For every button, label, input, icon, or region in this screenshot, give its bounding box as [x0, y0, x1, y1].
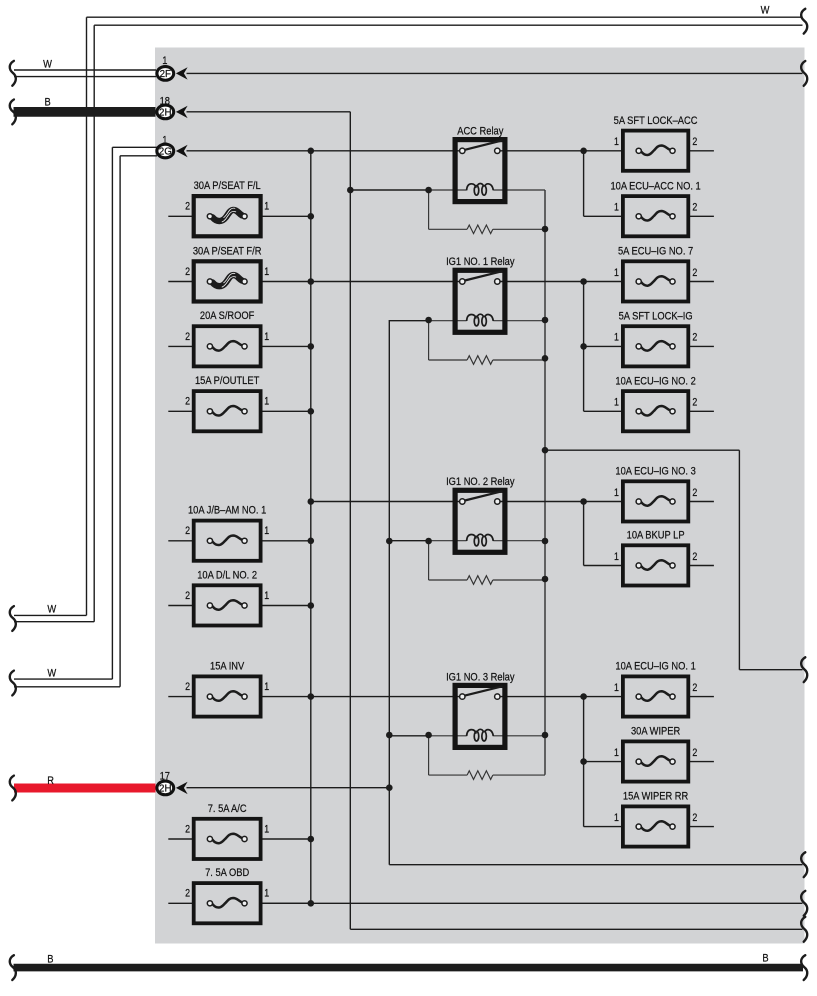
svg-text:1: 1 — [264, 681, 269, 693]
wire 7.5A OBD row continues to right edge — [261, 902, 803, 904]
value label 10A D/L NO. 2 — [197, 570, 257, 582]
junction at (583.6,501.5) on right fuse feed bus — [580, 498, 587, 505]
svg-text:30A WIPER: 30A WIPER — [631, 726, 681, 738]
bus: right fuse feed vertical (IG1 NO.2 group) — [583, 502, 585, 566]
pin 1 label of 10A D/L NO. 2 — [264, 590, 269, 602]
value label 30A P/SEAT F/R — [193, 246, 262, 258]
wire R (red) from left edge to connector 2H pin 17 — [14, 784, 156, 793]
value label 10A ECU–IG NO. 2 — [615, 376, 696, 388]
junction at (310.8,501.5) on left output bus — [308, 498, 315, 505]
wire coil feed to IG1 NO. 3 Relay — [389, 735, 428, 737]
svg-text:2: 2 — [692, 136, 697, 148]
value label 30A P/SEAT F/L — [194, 180, 261, 192]
wire right fuse output at y=411.3 — [688, 410, 714, 412]
wire left fuse output at y=346.4 — [261, 345, 311, 347]
svg-text:B: B — [44, 97, 50, 109]
svg-text:15A INV: 15A INV — [210, 661, 244, 673]
svg-text:ACC Relay: ACC Relay — [457, 126, 504, 138]
junction at (389.3,541) on coil return bus — [386, 538, 393, 545]
wire right fuse output at y=501.5 — [688, 501, 714, 503]
pin 1 label of 10A BKUP LP — [614, 551, 619, 563]
pin 1 label of 10A J/B–AM NO. 1 — [264, 525, 269, 537]
junction at (428.6,190) on resistor branch — [425, 187, 432, 194]
svg-text:1: 1 — [614, 812, 619, 824]
value label 5A SFT LOCK–IG — [619, 311, 693, 323]
svg-text:5A SFT LOCK–IG: 5A SFT LOCK–IG — [619, 311, 693, 323]
svg-text:2F: 2F — [160, 69, 171, 80]
junction at (428.6,735) on resistor branch — [425, 732, 432, 739]
resistor of ACC Relay — [467, 225, 493, 234]
svg-text:2: 2 — [692, 812, 697, 824]
relay IG1 NO. 3 Relay — [455, 685, 505, 747]
wire break (left edge) W lower exit 1 — [10, 606, 16, 631]
wire W pair corner into 2G — [112, 147, 157, 156]
svg-text:1: 1 — [614, 136, 619, 148]
wire W vertical pair to connector 2G — [112, 147, 120, 687]
junction at (583.6,346.4) on right fuse feed bus — [580, 343, 587, 350]
relay ACC Relay — [455, 140, 505, 202]
svg-text:IG1 NO. 1 Relay: IG1 NO. 1 Relay — [446, 256, 515, 268]
wire coil loop of IG1 NO. 2 Relay (coil row / resistor branch) — [429, 541, 545, 580]
svg-text:2: 2 — [185, 681, 190, 693]
pin 1 label of 10A ECU–IG NO. 3 — [614, 487, 619, 499]
connector 2H pin 17 — [157, 781, 188, 795]
svg-text:2: 2 — [185, 824, 190, 836]
junction at (583.6,281.5) on right fuse feed bus — [580, 278, 587, 285]
wire W vertical outer (left side) — [86, 17, 88, 615]
svg-text:15A P/OUTLET: 15A P/OUTLET — [195, 375, 260, 387]
label of relay IG1 NO. 2 Relay — [446, 476, 515, 488]
junction at (545.0,358.3) on coil right bus — [542, 355, 549, 362]
pin 2 label of 15A INV — [185, 681, 190, 693]
fuse 10A ECU–ACC NO. 1 — [623, 196, 688, 236]
wire right fuse output at y=565.5 — [688, 565, 714, 567]
bus: coil/resistor right vertical — [544, 190, 546, 775]
svg-text:7. 5A A/C: 7. 5A A/C — [208, 803, 247, 815]
svg-text:B: B — [762, 953, 768, 965]
wire color label B at (50.4,962.3) — [47, 954, 53, 966]
svg-text:30A P/SEAT F/L: 30A P/SEAT F/L — [194, 180, 261, 192]
wire left fuse output at y=696.6 — [261, 696, 463, 698]
pin 2 label of 30A P/SEAT F/L — [185, 201, 190, 213]
pin 2 label of 30A WIPER — [692, 747, 697, 759]
wire color label W at (51.8,612.5) — [47, 604, 56, 616]
wire W lower-left exit pair (second W) — [14, 679, 120, 687]
wire left fuse stub at y=605.5 — [168, 605, 193, 607]
svg-text:1: 1 — [614, 202, 619, 214]
pin 1 label of 10A ECU–IG NO. 2 — [614, 397, 619, 409]
wire coil loop of IG1 NO. 3 Relay (coil row / resistor branch) — [429, 736, 545, 775]
wire color label B at (47.6,105.6) — [44, 97, 50, 109]
fuse 15A WIPER RR — [623, 806, 688, 846]
value label 7. 5A OBD — [205, 867, 250, 879]
wire B (black) from left edge to connector 2H pin 18 — [14, 107, 156, 117]
resistor of IG1 NO. 1 Relay — [467, 356, 493, 365]
svg-text:IG1 NO. 2 Relay: IG1 NO. 2 Relay — [446, 476, 515, 488]
svg-text:5A SFT LOCK–ACC: 5A SFT LOCK–ACC — [614, 115, 698, 127]
svg-text:1: 1 — [614, 747, 619, 759]
fuse 10A D/L NO. 2 — [194, 585, 261, 625]
svg-text:1: 1 — [614, 487, 619, 499]
wire break (right edge) B ground bus — [801, 955, 807, 980]
value label 30A WIPER — [631, 726, 681, 738]
wire from 2H pin 17 to coil return bus — [187, 787, 390, 789]
wire break (left edge) R into 2H-17 — [10, 776, 16, 801]
junction at (310.8,540.8) on left output bus — [308, 538, 315, 545]
fuse 5A ECU–IG NO. 7 — [623, 261, 688, 301]
wire right fuse output at y=826.6 — [688, 826, 714, 828]
wire W vertical inner (left side) — [93, 25, 95, 622]
pin 2 label of 10A BKUP LP — [692, 551, 697, 563]
wire break (right edge) ground bus exit — [801, 917, 807, 942]
wire right fuse feed at y=411.3 — [584, 410, 623, 412]
label of relay ACC Relay — [457, 126, 504, 138]
pin number 1 of connector 2G — [162, 135, 167, 147]
value label 20A S/ROOF — [200, 310, 254, 322]
svg-text:2: 2 — [185, 590, 190, 602]
junction at (583.6,696.6) on right fuse feed bus — [580, 693, 587, 700]
resistor of IG1 NO. 3 Relay — [467, 771, 493, 780]
svg-text:20A S/ROOF: 20A S/ROOF — [200, 310, 254, 322]
wire coil feed to ACC Relay — [350, 189, 428, 191]
svg-text:10A ECU–IG NO. 2: 10A ECU–IG NO. 2 — [615, 376, 696, 388]
value label 7. 5A A/C — [208, 803, 247, 815]
fuse 15A P/OUTLET — [194, 391, 261, 431]
pin number 17 of connector 2H — [160, 771, 171, 783]
wire IG1 NO.2 relay contact output — [497, 501, 623, 503]
wire break (right edge) coil return exit — [801, 852, 807, 877]
bus: left fuse output vertical (feeds relays) — [310, 151, 312, 904]
svg-text:1: 1 — [614, 397, 619, 409]
svg-text:2: 2 — [185, 201, 190, 213]
junction at (545.0,541) on coil right bus — [542, 538, 549, 545]
svg-text:W: W — [47, 668, 56, 680]
junction at (310.8,839) on left output bus — [308, 836, 315, 843]
pin 2 label of 7. 5A A/C — [185, 824, 190, 836]
wire W from left edge to connector 2F (double line) — [14, 70, 156, 77]
wire coil feed to IG1 NO. 1 Relay — [389, 320, 428, 322]
pin 2 label of 15A P/OUTLET — [185, 396, 190, 408]
svg-text:2G: 2G — [159, 146, 172, 157]
pin 2 label of 10A J/B–AM NO. 1 — [185, 525, 190, 537]
wire IG1 NO.2 relay contact feed — [311, 501, 463, 503]
svg-text:10A D/L NO. 2: 10A D/L NO. 2 — [197, 570, 257, 582]
junction at (310.8,216.3) on left output bus — [308, 213, 315, 220]
pin 2 label of 20A S/ROOF — [185, 331, 190, 343]
wire coil loop of IG1 NO. 1 Relay (coil row / resistor branch) — [429, 321, 545, 360]
bus: right fuse feed vertical (ACC group) — [583, 151, 585, 217]
pin number 1 of connector 2F — [162, 55, 167, 67]
bus: right fuse feed vertical (IG1 NO.1 group) — [583, 282, 585, 412]
pin 2 label of 7. 5A OBD — [185, 888, 190, 900]
wire break (left edge) B ground bus — [10, 955, 16, 980]
wire W top inner run (to right edge) — [94, 24, 802, 26]
wire break (right edge) 2F line — [801, 61, 807, 86]
svg-text:1: 1 — [162, 55, 167, 67]
relay IG1 NO. 2 Relay — [455, 490, 505, 552]
junction block panel (shaded background) — [155, 48, 805, 944]
svg-text:1: 1 — [264, 266, 269, 278]
svg-text:1: 1 — [614, 551, 619, 563]
junction at (583.6,150.8) on right fuse feed bus — [580, 148, 587, 155]
junction at (310.8,696.6) on left output bus — [308, 693, 315, 700]
bus: 2H-18 ground vertical — [349, 112, 351, 930]
svg-text:1: 1 — [264, 590, 269, 602]
wire right fuse output at y=696.6 — [688, 696, 714, 698]
resistor of IG1 NO. 2 Relay — [467, 576, 493, 585]
svg-text:W: W — [43, 59, 52, 71]
svg-text:B: B — [47, 954, 53, 966]
pin 2 label of 5A ECU–IG NO. 7 — [692, 267, 697, 279]
svg-text:10A ECU–ACC NO. 1: 10A ECU–ACC NO. 1 — [610, 181, 700, 193]
fuse 30A WIPER — [623, 741, 688, 781]
wire left fuse output at y=605.5 — [261, 605, 311, 607]
svg-text:1: 1 — [264, 525, 269, 537]
wire right fuse output at y=761.6 — [688, 761, 714, 763]
svg-text:2H: 2H — [159, 783, 171, 794]
pin 2 label of 15A WIPER RR — [692, 812, 697, 824]
svg-text:1: 1 — [264, 331, 269, 343]
wire left fuse output at y=903.3 — [261, 902, 311, 904]
bus: right fuse feed vertical (IG1 NO.3 group) — [583, 697, 585, 827]
pin 2 label of 5A SFT LOCK–IG — [692, 332, 697, 344]
wire break (left edge) W into 2F — [10, 61, 16, 86]
junction at (310.8,903.3) on left output bus — [308, 900, 315, 907]
wire left fuse stub at y=839 — [168, 838, 193, 840]
fuse 7. 5A OBD — [194, 883, 261, 923]
fuse 30A P/SEAT F/R — [194, 261, 261, 301]
svg-text:R: R — [47, 775, 54, 787]
wire left fuse stub at y=216.3 — [168, 215, 193, 217]
value label 10A BKUP LP — [627, 530, 685, 542]
svg-text:2: 2 — [185, 396, 190, 408]
svg-text:7. 5A OBD: 7. 5A OBD — [205, 867, 250, 879]
wire ground bus exit to right edge — [350, 928, 802, 930]
label of relay IG1 NO. 3 Relay — [446, 672, 515, 684]
wire right fuse feed at y=565.5 — [584, 565, 623, 567]
svg-text:1: 1 — [264, 201, 269, 213]
wire IG1 NO.3 relay contact output — [497, 696, 623, 698]
svg-text:1: 1 — [162, 135, 167, 147]
junction at (310.8,605.5) on left output bus — [308, 602, 315, 609]
svg-text:1: 1 — [264, 888, 269, 900]
pin 1 label of 5A SFT LOCK–IG — [614, 332, 619, 344]
wire color label W at (47.6,67.3) — [43, 59, 52, 71]
svg-text:1: 1 — [264, 824, 269, 836]
value label 10A J/B–AM NO. 1 — [188, 505, 267, 517]
svg-text:2: 2 — [692, 551, 697, 563]
junction at (310.8,281.5) on left output bus — [308, 278, 315, 285]
junction at (310.8,150.8) on left output bus — [308, 148, 315, 155]
pin 2 label of 10A ECU–ACC NO. 1 — [692, 202, 697, 214]
wire left fuse output at y=281.5 — [261, 281, 463, 283]
connector 2F pin 1 — [157, 67, 188, 81]
wire left fuse stub at y=346.4 — [168, 345, 193, 347]
pin 1 label of 20A S/ROOF — [264, 331, 269, 343]
wire left fuse stub at y=696.6 — [168, 696, 193, 698]
pin 1 label of 15A WIPER RR — [614, 812, 619, 824]
wire right fuse output at y=216.3 — [688, 215, 714, 217]
wire W lower exit run inner — [14, 621, 94, 623]
wire right fuse output at y=346.4 — [688, 345, 714, 347]
wire W top outer run (to right edge) — [87, 16, 803, 18]
wire color label W at (51.8,676.3) — [47, 668, 56, 680]
svg-text:1: 1 — [614, 267, 619, 279]
svg-text:W: W — [761, 5, 770, 17]
junction at (428.6,320) on resistor branch — [425, 317, 432, 324]
pin 1 label of 10A ECU–ACC NO. 1 — [614, 202, 619, 214]
fuse 30A P/SEAT F/L — [194, 196, 261, 236]
label of relay IG1 NO. 1 Relay — [446, 256, 515, 268]
wire break (right edge) coil bus exit — [801, 657, 807, 682]
pin 2 label of 30A P/SEAT F/R — [185, 266, 190, 278]
pin 1 label of 30A WIPER — [614, 747, 619, 759]
pin 1 label of 30A P/SEAT F/R — [264, 266, 269, 278]
svg-text:17: 17 — [160, 771, 171, 783]
pin 1 label of 30A P/SEAT F/L — [264, 201, 269, 213]
wire coil feed to IG1 NO. 2 Relay — [389, 540, 428, 542]
junction at (545.0,450.2) on coil right bus — [542, 447, 549, 454]
wire left fuse stub at y=540.8 — [168, 540, 193, 542]
pin 1 label of 7. 5A A/C — [264, 824, 269, 836]
bus: relay coil return vertical — [388, 320, 390, 865]
svg-text:15A WIPER RR: 15A WIPER RR — [623, 791, 689, 803]
pin 1 label of 7. 5A OBD — [264, 888, 269, 900]
wire right fuse feed at y=216.3 — [584, 215, 623, 217]
junction at (389.3,787.7) on coil return bus — [386, 784, 393, 791]
junction at (428.6,541) on resistor branch — [425, 538, 432, 545]
wire right fuse feed at y=826.6 — [584, 826, 623, 828]
wire right fuse output at y=150.8 — [688, 150, 714, 152]
pin 1 label of 15A P/OUTLET — [264, 396, 269, 408]
pin number 18 of connector 2H — [160, 96, 171, 108]
svg-text:30A P/SEAT F/R: 30A P/SEAT F/R — [193, 246, 262, 258]
wire left fuse stub at y=281.5 — [168, 281, 193, 283]
svg-text:1: 1 — [614, 682, 619, 694]
wire ACC relay contact output to 5A SFT LOCK-ACC — [497, 150, 623, 152]
wire coil loop of ACC Relay (coil row / resistor branch) — [429, 190, 545, 229]
junction at (310.8,346.4) on left output bus — [308, 343, 315, 350]
wire W lower exit run outer — [14, 614, 87, 616]
fuse 7. 5A A/C — [194, 819, 261, 859]
relay IG1 NO. 1 Relay — [455, 270, 505, 332]
svg-text:2: 2 — [692, 487, 697, 499]
svg-text:2: 2 — [692, 202, 697, 214]
wire coil return bus to right edge exit — [389, 864, 802, 866]
svg-text:10A J/B–AM NO. 1: 10A J/B–AM NO. 1 — [188, 505, 267, 517]
wire from 2H pin 18 to vertical bus — [187, 111, 351, 113]
svg-text:2: 2 — [692, 332, 697, 344]
pin 2 label of 10A ECU–IG NO. 3 — [692, 487, 697, 499]
value label 5A ECU–IG NO. 7 — [618, 246, 693, 258]
junction at (545.0,579) on coil right bus — [542, 576, 549, 583]
pin 2 label of 10A ECU–IG NO. 1 — [692, 682, 697, 694]
junction at (583.6,761.6) on right fuse feed bus — [580, 758, 587, 765]
svg-text:2: 2 — [692, 267, 697, 279]
junction at (545.0,735) on coil right bus — [542, 732, 549, 739]
wire right fuse feed at y=346.4 — [584, 345, 623, 347]
svg-text:2: 2 — [692, 397, 697, 409]
value label 15A INV — [210, 661, 244, 673]
wire left fuse output at y=216.3 — [261, 215, 311, 217]
wire left fuse stub at y=411.3 — [168, 410, 193, 412]
fuse 20A S/ROOF — [194, 326, 261, 366]
wire color label B at (765.5,961.3) — [762, 953, 768, 965]
fuse 10A ECU–IG NO. 2 — [623, 391, 688, 431]
svg-text:2: 2 — [185, 525, 190, 537]
fuse 5A SFT LOCK–IG — [623, 326, 688, 366]
wire break (right edge) OBD row — [801, 891, 807, 916]
wire from coil bus to right edge (node at y=450) — [545, 450, 803, 670]
pin 2 label of 10A D/L NO. 2 — [185, 590, 190, 602]
svg-text:18: 18 — [160, 96, 171, 108]
svg-text:2: 2 — [185, 266, 190, 278]
value label 15A WIPER RR — [623, 791, 689, 803]
wire color label R at (50.6,784.2) — [47, 775, 54, 787]
wire from 2G pin 1 to ACC relay contact — [187, 150, 463, 152]
svg-text:2: 2 — [185, 888, 190, 900]
wire left fuse stub at y=903.3 — [168, 902, 193, 904]
pin 1 label of 5A SFT LOCK–ACC — [614, 136, 619, 148]
fuse 10A ECU–IG NO. 1 — [623, 676, 688, 716]
svg-text:1: 1 — [264, 396, 269, 408]
wire left fuse output at y=839 — [261, 838, 311, 840]
fuse 10A ECU–IG NO. 3 — [623, 481, 688, 521]
svg-text:1: 1 — [614, 332, 619, 344]
wire break (left edge) B into 2H — [10, 100, 16, 125]
value label 10A ECU–IG NO. 3 — [615, 466, 696, 478]
wire left fuse output at y=540.8 — [261, 540, 311, 542]
svg-text:10A BKUP LP: 10A BKUP LP — [627, 530, 685, 542]
junction at (310.8,411.3) on left output bus — [308, 408, 315, 415]
svg-text:2: 2 — [692, 747, 697, 759]
wire right fuse output at y=281.5 — [688, 281, 714, 283]
junction at (389.3,735) on coil return bus — [386, 732, 393, 739]
svg-text:10A ECU–IG NO. 1: 10A ECU–IG NO. 1 — [615, 661, 696, 673]
wire left fuse output at y=411.3 — [261, 410, 311, 412]
value label 10A ECU–IG NO. 1 — [615, 661, 696, 673]
pin 2 label of 10A ECU–IG NO. 2 — [692, 397, 697, 409]
junction at (545.0,229) on coil right bus — [542, 226, 549, 233]
fuse 10A BKUP LP — [623, 545, 688, 585]
junction at (350.3,190) on ground bus / ACC coil — [347, 187, 354, 194]
pin 2 label of 5A SFT LOCK–ACC — [692, 136, 697, 148]
value label 15A P/OUTLET — [195, 375, 260, 387]
svg-text:2: 2 — [185, 331, 190, 343]
wire break (right edge) W top — [801, 9, 807, 34]
svg-text:2: 2 — [692, 682, 697, 694]
pin 1 label of 5A ECU–IG NO. 7 — [614, 267, 619, 279]
wire IG1 NO.1 relay contact output — [497, 281, 623, 283]
connector 2G pin 1 — [157, 144, 188, 158]
pin 1 label of 15A INV — [264, 681, 269, 693]
svg-text:IG1 NO. 3 Relay: IG1 NO. 3 Relay — [446, 672, 515, 684]
wire right fuse feed at y=761.6 — [584, 761, 623, 763]
wire from 2F pin 1 across block to right edge — [187, 72, 803, 74]
value label 10A ECU–ACC NO. 1 — [610, 181, 700, 193]
svg-text:2H: 2H — [159, 107, 171, 118]
svg-text:5A ECU–IG NO. 7: 5A ECU–IG NO. 7 — [618, 246, 693, 258]
connector 2H pin 18 — [157, 105, 188, 119]
svg-text:10A ECU–IG NO. 3: 10A ECU–IG NO. 3 — [615, 466, 696, 478]
junction at (545.0,320) on coil right bus — [542, 317, 549, 324]
fuse 10A J/B–AM NO. 1 — [194, 521, 261, 561]
wire B (black) ground bus along bottom — [14, 964, 804, 972]
wire color label W at (765.0,13.3) — [761, 5, 770, 17]
pin 1 label of 10A ECU–IG NO. 1 — [614, 682, 619, 694]
fuse 15A INV — [194, 676, 261, 716]
fuse 5A SFT LOCK–ACC — [623, 131, 688, 171]
